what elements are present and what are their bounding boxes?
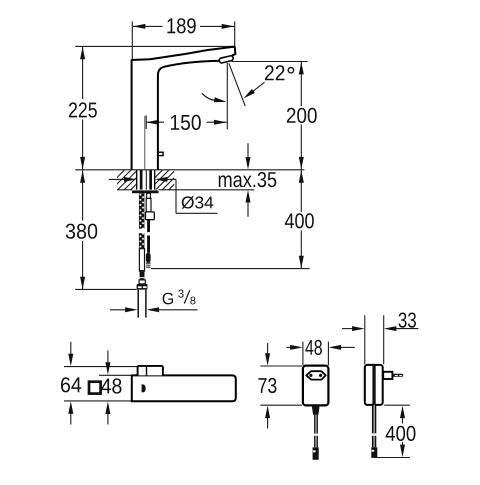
electrical cable stub (147, 193, 151, 198)
extension line cable end (400 bottom) (151, 268, 310, 270)
cable ribbed connector end (146, 262, 150, 267)
faucet axis extension line (144, 116, 146, 170)
extension line aerator level (200 top) (232, 61, 308, 63)
dimension 380 (82, 170, 84, 289)
deck top line (75, 169, 304, 171)
top view rear body (138, 366, 163, 376)
dimension 64 arrows (70, 342, 72, 356)
max.35 arrows (247, 143, 249, 159)
dimension 200 (300, 62, 302, 169)
spray line angled 22deg (229, 63, 245, 106)
dimension 150 (146, 116, 226, 130)
dimension 33 (342, 328, 354, 330)
extension lines 33 (364, 315, 366, 364)
deck hatching (104, 170, 196, 191)
cable block (146, 198, 151, 212)
shank through deck (136, 170, 138, 190)
sensor dot top view (142, 384, 146, 392)
leader arrow for 22 degrees (252, 82, 265, 92)
dimension diameter 34 (109, 178, 126, 180)
label 64 (61, 377, 81, 392)
braided hose upper segment (139, 193, 145, 228)
square symbol (89, 382, 101, 394)
hose smooth section (139, 249, 144, 271)
dimension 73 (267, 343, 269, 356)
extension lines top view (64, 366, 137, 368)
power supply side body (365, 365, 383, 405)
euro socket face (306, 371, 325, 379)
extension line hose end (380 bottom) (75, 288, 136, 290)
extension line cable end psu (400 bottom) (376, 457, 410, 459)
arc arrow to spray line (202, 93, 216, 100)
spout underside edge (158, 61, 219, 170)
top view spout body (132, 375, 236, 401)
dimension 48 psu (286, 346, 292, 348)
extension lines 73 psu (260, 365, 302, 367)
label max.35 (219, 172, 276, 187)
cable dark rod lower (147, 236, 150, 253)
extension line psu bottom (400 top) (384, 404, 410, 406)
dimension 48 arrows (top view) (107, 351, 109, 365)
hose end fitting (139, 280, 145, 284)
braided hose lower segment (139, 233, 145, 249)
dimension G3/8 (110, 309, 127, 311)
aerator at spout tip (219, 55, 234, 63)
euro plug on side view (383, 372, 392, 379)
cable ball connector (146, 253, 151, 262)
cable dark rod upper (147, 220, 150, 232)
mounting flange under deck (132, 190, 159, 193)
power supply front body (303, 366, 329, 406)
psu front cable (312, 405, 320, 414)
dimension 400 psu (400, 406, 405, 419)
connection pipe G3/8 (137, 290, 139, 318)
extension lines 48 psu (302, 342, 304, 366)
cable collar (146, 212, 155, 220)
faucet body outline (132, 47, 236, 170)
extension line top level (spout tip) (75, 45, 235, 47)
deck bottom extension line (117, 189, 132, 191)
label 48 top view (101, 378, 121, 393)
sensor tab on body (158, 152, 163, 155)
dimension 400 (main view) (300, 170, 302, 268)
label 22 degrees (265, 65, 285, 80)
psu side cable (372, 405, 376, 434)
dimension 225 (82, 47, 84, 170)
spray line vertical (150 right extension) (226, 63, 228, 130)
dimension 189 (132, 22, 234, 60)
connection nut (137, 284, 148, 290)
